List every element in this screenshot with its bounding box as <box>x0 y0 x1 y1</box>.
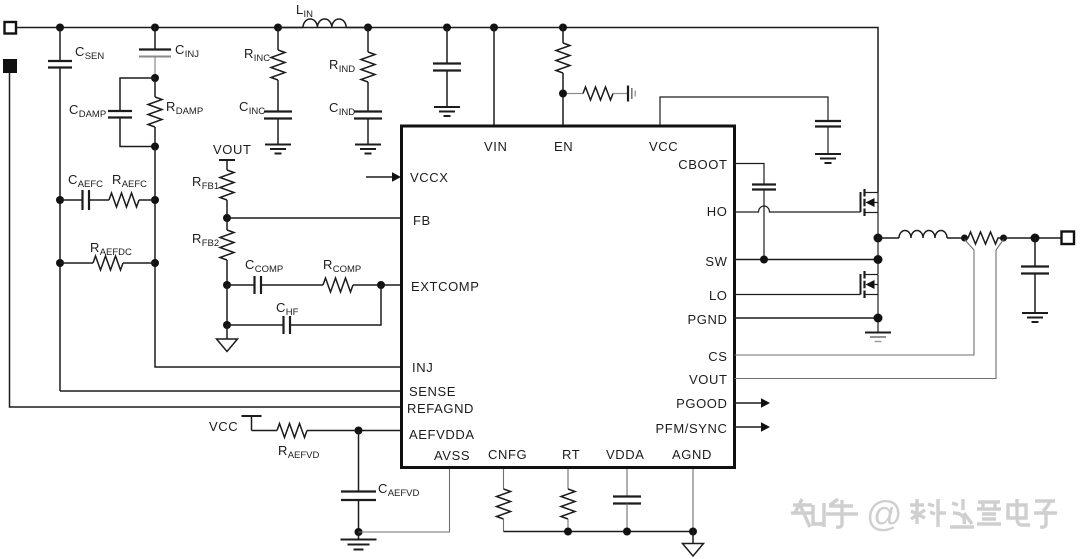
svg-text:LO: LO <box>709 288 728 303</box>
svg-text:SENSE: SENSE <box>409 384 456 399</box>
wire: SENSE run into pin <box>60 390 400 392</box>
transistor Q1 (high-side NMOS) <box>861 189 879 216</box>
node: CBOOT to SW junction <box>760 256 768 264</box>
resistor RT <box>561 468 575 532</box>
capacitor CIND <box>354 112 382 145</box>
capacitor CAEFC <box>60 190 109 210</box>
svg-text:PGND: PGND <box>688 312 728 327</box>
node: SW pin junction <box>874 255 883 264</box>
wire: PFM/SYNC arrow out <box>735 422 771 432</box>
wire: PGND pin run <box>735 317 879 319</box>
ground (power stage) <box>865 333 891 342</box>
svg-text:VDDA: VDDA <box>606 447 645 462</box>
svg-text:@: @ <box>866 493 903 534</box>
node: comp junction <box>223 281 231 289</box>
node: rail junction dots <box>56 24 567 32</box>
wire: AGND pin down <box>692 468 694 532</box>
svg-text:AVSS: AVSS <box>434 448 470 463</box>
svg-text:VCC: VCC <box>209 419 238 434</box>
svg-text:CNFG: CNFG <box>488 447 527 462</box>
wire: AVSS pin down and left <box>359 468 450 533</box>
svg-text:VOUT: VOUT <box>213 142 252 157</box>
wire: VOUT sense run <box>735 240 1004 379</box>
wire: top input rail to high-side drain <box>16 28 878 193</box>
node: sense resistor right <box>1000 235 1007 242</box>
input terminal J1 (open square) <box>5 22 17 34</box>
ground (CIND) <box>355 145 381 154</box>
svg-text:AGND: AGND <box>672 447 712 462</box>
resistor RAEFVD <box>252 424 401 438</box>
wire: RFB2 bottom to CHF node <box>226 285 228 325</box>
svg-text:CS: CS <box>708 349 727 364</box>
watermark zhihu <box>791 493 1057 534</box>
inductor LOUT <box>878 231 961 238</box>
svg-text:HO: HO <box>707 204 728 219</box>
resistor RFB1 <box>220 170 234 218</box>
resistor RDAMP <box>148 78 162 147</box>
capacitor CHF <box>227 285 381 334</box>
resistor RSENSE <box>965 232 1004 244</box>
label VCC supply tap <box>242 416 262 431</box>
capacitor CVCC <box>815 121 841 154</box>
svg-text:CBOOT: CBOOT <box>678 157 727 172</box>
ground (CAEFVD) <box>341 532 377 550</box>
capacitor COUT <box>1021 238 1049 313</box>
resistor REN1 (EN pull-up) <box>556 28 570 127</box>
wire: VCC pin up and over to bypass cap <box>660 97 828 126</box>
ground (EN, rotated earth) <box>628 86 635 102</box>
capacitor CVDDA <box>613 468 641 532</box>
capacitor CIN (input bypass) <box>433 28 461 108</box>
ground (CVCC) <box>815 154 841 163</box>
capacitor CINC <box>264 112 292 145</box>
wire: J2 down to REFAGND net <box>10 73 401 408</box>
wire: low-side source to PGND <box>877 295 879 333</box>
ground (CINC) <box>265 145 291 154</box>
svg-text:FB: FB <box>413 213 431 228</box>
resistor REN2 (EN to ground) <box>567 87 627 100</box>
node: AVSS/CAEFVD junction <box>355 528 363 536</box>
svg-text:PFM/SYNC: PFM/SYNC <box>656 421 728 436</box>
ground (FB divider, triangle) <box>217 325 238 352</box>
wire: VIN pin <box>493 28 495 127</box>
resistor RAEFC <box>109 193 155 207</box>
node: sense resistor left <box>961 235 968 242</box>
wire: bottom common rail <box>504 531 694 533</box>
wire: output node <box>1004 237 1062 239</box>
output terminal J3 (open square) <box>1062 232 1075 245</box>
node: EN divider junction <box>559 90 567 98</box>
svg-text:RT: RT <box>562 447 580 462</box>
ground (COUT) <box>1022 313 1048 322</box>
svg-text:VIN: VIN <box>484 139 507 154</box>
ground (CIN) <box>434 107 460 116</box>
svg-text:EN: EN <box>554 139 573 154</box>
node: output cap junction <box>1031 234 1040 243</box>
svg-text:SW: SW <box>705 254 727 269</box>
capacitor CBOOT <box>752 185 776 260</box>
node: PGND junction <box>874 314 883 323</box>
wire: PGOOD arrow out <box>735 398 771 408</box>
wire: INJ net vertical and run into pin <box>155 147 400 368</box>
svg-text:AEFVDDA: AEFVDDA <box>409 427 475 442</box>
svg-text:VCCX: VCCX <box>410 170 449 185</box>
node: AEFVDDA junction <box>355 427 363 435</box>
node: CINJ / damp junction <box>151 74 159 82</box>
capacitor CAEFVD <box>341 431 376 533</box>
node: FB <box>223 214 231 222</box>
inductor LIN <box>278 19 368 28</box>
node: SW inductor junction <box>874 234 883 243</box>
resistor RINC <box>271 28 285 112</box>
wire: VCCX arrow into pin <box>366 172 401 182</box>
node: AEFC junctions <box>56 196 159 267</box>
node: CHF junction <box>223 321 231 329</box>
ground (AGND, triangle) <box>683 532 704 557</box>
node: damp bottom junction <box>151 143 159 151</box>
wire: FB run into pin <box>227 217 400 219</box>
resistor RFB2 <box>220 218 234 285</box>
wire: CS kelvin run <box>735 240 975 356</box>
transistor Q2 (low-side NMOS) <box>861 271 879 298</box>
wire: SW node vertical <box>877 213 879 275</box>
label VOUT (feedback top) <box>219 160 235 170</box>
capacitor CDAMP <box>108 78 155 147</box>
node: bottom rail dots <box>564 528 697 536</box>
capacitor CCOMP <box>227 276 323 294</box>
wire: HO pin to high-side gate (hop over CBOOT) <box>735 206 861 212</box>
svg-text:REFAGND: REFAGND <box>407 401 474 416</box>
capacitor CSEN <box>48 28 72 68</box>
wire: LO pin to low-side gate <box>735 294 861 296</box>
wire: CSEN bottom down to SENSE net <box>59 68 61 392</box>
resistor RIND <box>361 28 375 112</box>
svg-text:EXTCOMP: EXTCOMP <box>411 279 479 294</box>
wire: CBOOT pin and cap <box>735 164 765 185</box>
svg-text:PGOOD: PGOOD <box>676 396 727 411</box>
resistor RAEFDC <box>60 256 155 270</box>
capacitor CINJ <box>139 28 171 79</box>
op-amp U1 (buck controller IC box) <box>402 126 735 468</box>
terminal J2 (filled square) <box>4 60 17 73</box>
svg-text:VCC: VCC <box>649 139 678 154</box>
resistor RCOMP <box>323 278 400 292</box>
svg-text:INJ: INJ <box>412 360 433 375</box>
wire: SW pin run <box>735 259 879 261</box>
node: EXTCOMP <box>377 281 385 289</box>
resistor RCNFG <box>497 468 511 532</box>
svg-text:VOUT: VOUT <box>689 372 728 387</box>
